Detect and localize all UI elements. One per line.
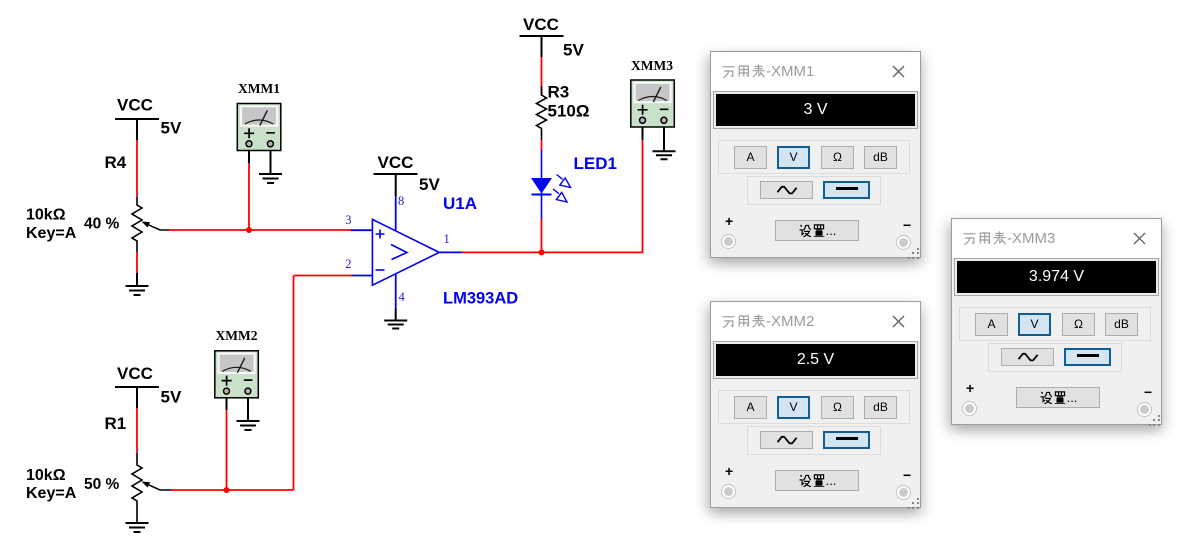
ground (XMM3) xyxy=(653,151,676,159)
op-amp U1A comparator LM393AD xyxy=(372,219,439,285)
power VCC (R4 branch) xyxy=(115,119,159,140)
svg-text:XMM2: XMM2 xyxy=(216,328,258,343)
potentiometer R4 xyxy=(132,197,169,252)
wire LED to output node xyxy=(541,219,543,252)
svg-text:2: 2 xyxy=(345,257,351,271)
svg-text:VCC: VCC xyxy=(523,15,559,34)
svg-text:XMM3: XMM3 xyxy=(631,58,673,73)
wire op-amp pin4 stub to ground xyxy=(395,309,397,321)
svg-text:R1: R1 xyxy=(105,414,127,433)
power VCC (R3 branch) xyxy=(520,36,564,57)
svg-text:5V: 5V xyxy=(419,175,440,194)
wire op-amp output to LED node xyxy=(462,251,542,253)
power VCC (op-amp branch) xyxy=(374,174,418,196)
R1 wiper arrow head xyxy=(142,482,151,488)
ground (XMM1) xyxy=(259,174,282,183)
wire XMM1 plus to node xyxy=(248,163,250,230)
multimeter XMM2 icon xyxy=(215,328,258,398)
wire R3 to LED xyxy=(541,140,543,150)
wire op-amp pin2 from divider xyxy=(294,275,353,277)
wire R4 wiper to op-amp pin 3 xyxy=(169,229,352,231)
multimeter dialog XMM1 xyxy=(710,51,921,258)
svg-text:1: 1 xyxy=(444,232,450,246)
potentiometer R1 xyxy=(132,453,171,523)
wire XMM2 minus to ground xyxy=(247,398,249,421)
svg-text:LM393AD: LM393AD xyxy=(443,290,518,308)
multimeter XMM3 icon xyxy=(631,58,675,127)
wire VCC to R1 xyxy=(136,408,138,453)
svg-text:R4: R4 xyxy=(105,153,127,172)
multimeter dialog XMM2 xyxy=(710,301,921,508)
ground (op-amp pin 4) xyxy=(384,321,407,329)
wire XMM3 plus stub xyxy=(642,127,644,141)
svg-text:10kΩ: 10kΩ xyxy=(26,467,66,484)
svg-text:50 %: 50 % xyxy=(84,476,120,493)
svg-text:Key=A: Key=A xyxy=(26,485,77,502)
svg-text:LED1: LED1 xyxy=(574,154,617,173)
ground (below R4) xyxy=(126,273,149,295)
wire VCC to R4 xyxy=(136,140,138,197)
node junction (R4 wiper / XMM1) xyxy=(246,227,252,233)
wire XMM2 plus to node xyxy=(226,410,228,490)
multimeter XMM1 icon xyxy=(237,81,280,151)
svg-text:3: 3 xyxy=(345,213,351,227)
svg-text:VCC: VCC xyxy=(378,153,414,172)
svg-text:XMM1: XMM1 xyxy=(238,81,280,96)
svg-text:VCC: VCC xyxy=(117,364,153,383)
wire R1 wiper to riser xyxy=(171,489,294,491)
wire XMM1 plus stub xyxy=(248,151,250,163)
wire VCC to R3 xyxy=(541,57,543,95)
svg-text:40 %: 40 % xyxy=(84,216,120,233)
wire node to XMM3 riser xyxy=(542,140,643,252)
ground (XMM2) xyxy=(237,421,260,430)
multimeter dialog XMM3 xyxy=(951,218,1162,425)
wire riser R1 wiper to pin2 xyxy=(293,276,295,491)
wire R4 bottom to ground xyxy=(136,252,138,273)
wire XMM1 minus to ground xyxy=(270,151,272,174)
LED LED1 xyxy=(531,150,571,219)
node junction (R1 wiper / XMM2) xyxy=(224,487,230,493)
svg-text:5V: 5V xyxy=(563,41,584,60)
svg-text:10kΩ: 10kΩ xyxy=(26,207,66,224)
svg-text:8: 8 xyxy=(398,194,404,208)
svg-text:510Ω: 510Ω xyxy=(548,102,590,121)
svg-text:5V: 5V xyxy=(161,119,182,138)
svg-text:R3: R3 xyxy=(548,83,570,102)
ground (below R1) xyxy=(126,523,149,532)
node junction (output / LED / XMM3) xyxy=(539,249,545,255)
svg-text:VCC: VCC xyxy=(117,96,153,115)
power VCC (R1 branch) xyxy=(115,387,159,408)
wire XMM2 plus stub xyxy=(226,398,228,410)
svg-text:U1A: U1A xyxy=(443,194,477,213)
svg-text:Key=A: Key=A xyxy=(26,225,77,242)
wire XMM3 minus to ground xyxy=(663,127,665,152)
svg-text:5V: 5V xyxy=(161,388,182,407)
resistor R3 xyxy=(537,86,547,140)
R4 wiper arrow head xyxy=(142,222,151,228)
svg-text:4: 4 xyxy=(399,290,406,304)
